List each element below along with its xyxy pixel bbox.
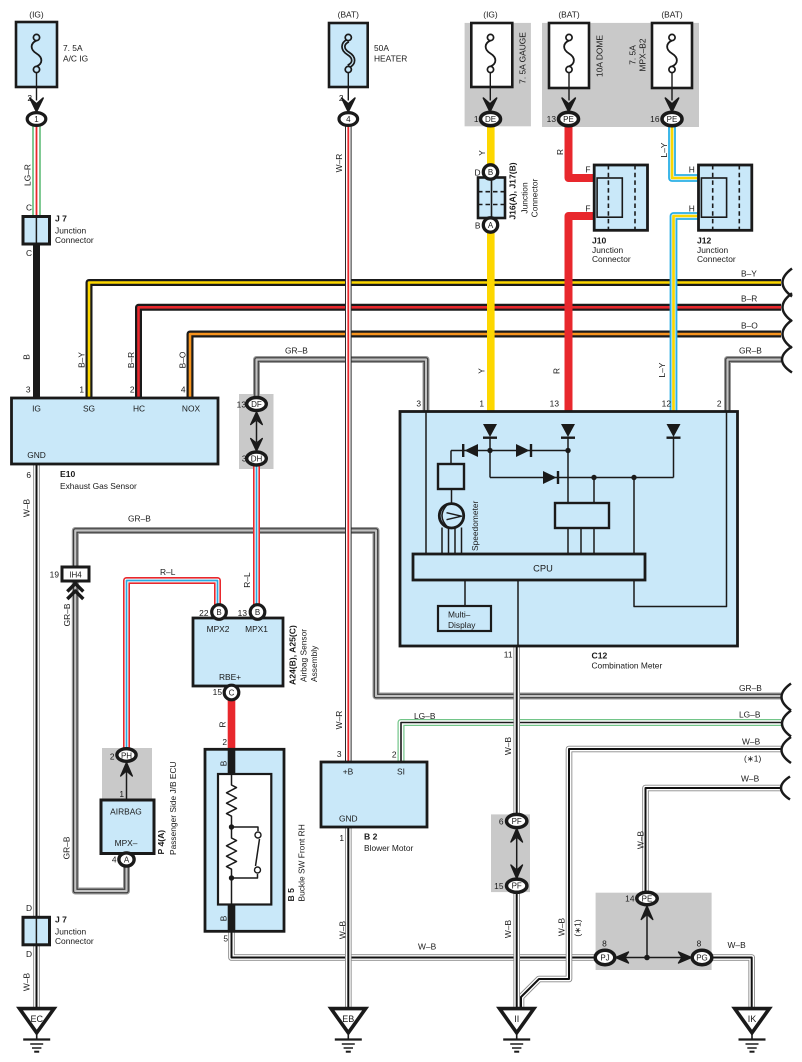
svg-text:A24(B), A25(C): A24(B), A25(C) [288,625,298,685]
svg-text:B–O: B–O [178,351,188,368]
svg-text:3: 3 [337,749,342,759]
gray background: 10A DOME / 7.5A MPX-B2 fuse block [542,23,699,127]
svg-text:4: 4 [346,115,351,124]
svg-text:Assembly: Assembly [309,645,319,682]
svg-text:W–B: W–B [503,920,513,939]
svg-text:Connector: Connector [55,235,94,245]
B5 inner switch box [218,774,271,905]
svg-text:7. 5A: 7. 5A [628,45,638,65]
wire W-B from C12 pin 11 to PF [516,646,518,815]
svg-text:PH: PH [121,752,132,761]
svg-text:LG–B: LG–B [414,711,436,721]
svg-text:B–R: B–R [741,294,757,304]
junction connector J16(A), J17(B) [478,178,505,219]
svg-text:PE: PE [563,115,574,124]
wire L-Y from PE 16 to J12 pin H [672,126,699,179]
labels: P4(A) [110,752,178,865]
svg-text:SG: SG [83,404,95,414]
svg-text:6: 6 [499,817,504,827]
connector circle B pin 13 [250,605,265,620]
ground IK [735,1009,770,1052]
svg-text:RBE+: RBE+ [219,672,241,682]
labels: J7 bottom [22,903,94,991]
svg-text:D: D [26,903,32,913]
svg-text:B: B [219,760,229,766]
svg-text:EB: EB [342,1014,354,1024]
labels: A24 box [199,608,319,747]
page-break curve W-B PE [781,777,790,800]
fuse 7.5A A/C IG [16,22,57,112]
labels: grounds [30,1014,756,1024]
svg-text:2: 2 [130,385,135,395]
wire LG-R from fuse 1 to J7 [36,126,38,219]
labels: J10 [585,165,630,265]
Multi-Display block [438,606,491,631]
svg-text:IG: IG [32,404,41,414]
svg-text:W–B: W–B [503,737,513,756]
svg-text:A: A [488,221,494,230]
svg-text:B–O: B–O [741,321,758,331]
junction connector J10 [594,165,647,230]
connector circle A (J16 bottom) [483,218,497,232]
svg-text:GR–B: GR–B [62,836,72,859]
diode inside C12 below pin 13 [561,424,575,439]
junction connector J12 [699,165,752,230]
IH4 connector [62,567,89,599]
svg-text:J 7: J 7 [55,915,67,925]
module block inside C12 [555,503,609,528]
B2 Blower Motor box [321,762,427,827]
svg-text:Connector: Connector [592,254,631,264]
svg-text:22: 22 [199,608,209,618]
svg-text:GR–B: GR–B [62,603,72,626]
svg-text:J16(A), J17(B): J16(A), J17(B) [508,162,518,219]
svg-text:P 4(A): P 4(A) [156,830,166,855]
junction connector J7 (top) [23,217,50,245]
wire W-B from E10 GND to ground EC [36,464,38,1008]
svg-text:R–L: R–L [242,572,252,588]
connector oval PE 13 [559,112,579,125]
svg-text:6: 6 [26,470,31,480]
svg-text:(BAT): (BAT) [558,10,579,20]
gray background: PF/PF connector [491,814,530,892]
wire Y (yellow) from DE fuse to C12 pin 1 [487,126,495,412]
connector circle B (J16 top) [483,165,497,179]
svg-text:B: B [488,168,493,177]
CPU block [413,554,645,580]
node dots inside C12 [487,448,492,453]
svg-text:Exhaust Gas Sensor: Exhaust Gas Sensor [60,481,137,491]
svg-text:DF: DF [251,400,262,409]
svg-text:Connector: Connector [697,254,736,264]
svg-text:W–R: W–R [334,154,344,173]
small square block inside C12 [438,464,464,489]
B5 node dots [229,824,234,829]
svg-text:A/C IG: A/C IG [63,54,88,64]
PJ to PG link with arrows and node [615,952,693,963]
svg-text:3: 3 [26,385,31,395]
labels: GR-B / IH4 net [50,514,152,860]
connector oval PE 16 [662,112,682,125]
page-break curve W-B (*1) [782,737,792,763]
svg-text:B–R: B–R [126,352,136,368]
svg-text:7. 5A: 7. 5A [63,43,83,53]
page-break curve LG-B [782,711,791,737]
svg-text:B: B [475,221,481,231]
svg-text:(IG): (IG) [483,10,498,20]
C12 Combination Meter box [400,412,738,647]
labels: right edge wire names top [739,269,762,356]
B5 Buckle SW Front RH box [205,749,284,931]
svg-text:8: 8 [602,939,607,949]
svg-text:R: R [552,368,562,374]
svg-text:Blower Motor: Blower Motor [364,843,414,853]
svg-text:Combination Meter: Combination Meter [592,661,663,671]
labels: DF/DH connector [237,346,309,464]
P4(A) Passenger Side J/B ECU box [101,771,154,854]
diode inside C12 below pin 12 [667,424,681,439]
svg-text:3: 3 [242,454,247,464]
svg-text:(IG): (IG) [29,10,44,20]
svg-text:HEATER: HEATER [374,54,407,64]
svg-text:12: 12 [662,399,672,409]
ground EC [20,1009,55,1052]
svg-text:(∗1): (∗1) [573,919,583,936]
svg-text:GR–B: GR–B [739,683,762,693]
ground II [500,1009,534,1052]
labels: fuse 10A DOME [547,10,605,156]
connector oval 4 (heater fuse output) [339,113,358,126]
svg-text:MPX–B2: MPX–B2 [638,38,648,71]
svg-text:7. 5A GAUGE: 7. 5A GAUGE [518,32,528,84]
svg-text:Y: Y [477,368,487,374]
wire W-B from PG to ground IK [712,958,752,1008]
diode pointing right on lower bus [543,471,559,484]
svg-text:W–R: W–R [334,711,344,730]
svg-text:W–B: W–B [557,918,567,937]
svg-text:PE: PE [667,115,678,124]
svg-text:EC: EC [30,1014,43,1024]
wire L-Y from J12 pin H to C12 pin 12 [674,216,700,412]
svg-text:Y: Y [477,150,487,156]
svg-text:SI: SI [397,767,405,777]
diode pointing right on upper bus [516,444,532,457]
page-break curve B-Y [783,269,793,297]
svg-text:+B: +B [343,767,354,777]
svg-text:IK: IK [748,1014,757,1024]
svg-text:NOX: NOX [182,404,201,414]
svg-text:50A: 50A [374,43,389,53]
svg-text:4: 4 [112,855,117,865]
svg-text:C12: C12 [592,651,608,661]
svg-text:GR–B: GR–B [739,346,762,356]
svg-text:W–B: W–B [742,737,761,747]
B5 terminal B (bottom) [228,904,236,932]
svg-text:B: B [255,608,260,617]
svg-text:GR–B: GR–B [285,346,308,356]
wire W-B from right edge to PE 14 [646,788,782,893]
C12 internal wiring [426,412,727,647]
wire B-O from E10 NOX to right edge [190,334,781,398]
svg-text:C: C [26,248,32,258]
connector oval A pin 4 [119,853,134,866]
svg-text:R: R [218,721,228,727]
svg-text:L–Y: L–Y [659,142,669,157]
svg-text:8: 8 [697,939,702,949]
svg-text:19: 19 [50,570,60,580]
svg-text:2: 2 [222,737,227,747]
svg-text:14: 14 [625,894,635,904]
wire B (black) J7 to E10 IG [33,243,40,398]
svg-text:Junction: Junction [55,226,87,236]
B5 resistor 2 [227,827,237,904]
svg-text:(∗1): (∗1) [744,754,761,764]
gray background: PE/PJ/PG connector block [596,893,712,970]
connector circle B pin 22 [212,605,227,620]
gray background: 7.5A GAUGE fuse block [465,23,531,126]
wire GR-B from right edge to C12 pin 2 [728,360,782,412]
svg-text:B–Y: B–Y [741,269,757,279]
connector oval PH with arrow [117,749,136,776]
svg-text:CPU: CPU [533,564,553,574]
svg-text:D: D [26,949,32,959]
svg-text:PE: PE [642,895,653,904]
svg-text:GND: GND [27,450,46,460]
svg-text:W–B: W–B [636,831,646,850]
svg-text:PF: PF [512,882,522,891]
svg-text:1: 1 [79,385,84,395]
svg-text:LG–R: LG–R [23,164,33,186]
svg-text:B–Y: B–Y [77,352,87,368]
labels: E10 wires [77,351,188,394]
svg-text:PJ: PJ [600,954,609,963]
wire R (red) from J10 pin F to C12 pin 13 [569,216,596,412]
svg-text:W–B: W–B [728,940,747,950]
svg-text:15: 15 [213,687,223,697]
svg-text:GR–B: GR–B [128,514,151,524]
ground EB [331,1009,366,1052]
connector circle C pin 15 [224,685,239,700]
svg-text:W–B: W–B [418,942,437,952]
svg-text:A: A [124,856,130,865]
svg-text:R–L: R–L [160,567,176,577]
svg-text:E10: E10 [60,469,76,479]
wire GR-B from DF to C12 pin 3 [257,360,427,412]
svg-text:C: C [26,203,32,213]
svg-text:13: 13 [550,399,560,409]
wire W-R from heater fuse to B2 +B [347,126,349,763]
svg-text:2: 2 [339,93,344,103]
svg-text:B: B [219,915,229,921]
svg-text:1: 1 [34,115,39,124]
diode pointing left on upper bus [462,444,478,457]
svg-text:MPX2: MPX2 [207,624,230,634]
svg-text:13: 13 [238,608,248,618]
fuse 50A HEATER [329,23,368,112]
svg-text:W–B: W–B [741,774,760,784]
labels: fuse 7.5A MPX-B2 [628,10,683,158]
page-break curve GR-B lower [782,684,792,711]
labels: B2 [334,711,436,939]
labels: E10 box [22,404,201,518]
B5 terminal B (top) [228,749,236,775]
svg-text:16: 16 [650,114,660,124]
fuse 7.5A MPX-B2 [652,23,692,112]
page-break curve B-O [783,320,793,348]
svg-text:4: 4 [181,385,186,395]
svg-text:W–B: W–B [338,921,348,940]
svg-text:Buckle SW Front RH: Buckle SW Front RH [297,824,307,901]
svg-text:2: 2 [392,750,397,760]
wire W-B (*1) from right edge to ground II [521,749,781,1007]
wire W-B from B5 pin 5 to PJ [232,931,596,958]
labels: W-B grounds area [494,737,746,963]
svg-text:15: 15 [494,881,504,891]
svg-text:B 5: B 5 [286,888,296,902]
svg-text:GND: GND [339,814,358,824]
svg-text:Connector: Connector [530,178,540,217]
svg-text:(BAT): (BAT) [661,10,682,20]
svg-text:1: 1 [479,399,484,409]
labels: B5 [219,760,437,951]
svg-text:HC: HC [133,404,145,414]
svg-text:II: II [514,1014,519,1024]
svg-text:Junction: Junction [520,182,530,214]
svg-text:(BAT): (BAT) [338,10,359,20]
wire GR-B from P4 pin A through IH4 to right edge [75,531,781,892]
svg-text:13: 13 [547,114,557,124]
svg-text:1: 1 [339,833,344,843]
svg-text:LG–B: LG–B [739,710,761,720]
svg-text:W–B: W–B [22,499,32,518]
svg-text:Passenger Side J/B ECU: Passenger Side J/B ECU [168,761,178,855]
labels: C12 pins [416,362,722,408]
wire R (red) from PE 13 to J10 pin F [569,126,596,179]
svg-text:H: H [689,165,695,175]
wire B-R from E10 HC to right edge [139,307,782,398]
connector oval PE 14 with arrow [637,892,657,957]
labels: right edge wire names bottom [739,683,762,784]
svg-text:Speedometer: Speedometer [470,501,480,551]
gray background: PH connector (Passenger Side J/B ECU) [102,748,152,802]
svg-text:B: B [216,608,221,617]
labels: fuse 7.5A GAUGE / DE [474,10,528,156]
fuse 7.5A GAUGE [471,23,512,112]
svg-text:3: 3 [416,399,421,409]
svg-text:Junction: Junction [55,927,87,937]
svg-text:5: 5 [223,934,228,944]
svg-text:C: C [229,689,235,698]
svg-text:1: 1 [474,114,479,124]
wire W-B from PF to ground II [516,892,518,1009]
svg-text:H: H [689,204,695,214]
page-break curve GR-B pin2 [782,347,792,373]
labels: R-L wires [160,567,252,588]
svg-text:B: B [22,354,32,360]
svg-text:DE: DE [485,115,496,124]
wire W-B from B2 GND to ground EB [347,827,349,1008]
svg-text:J12: J12 [697,236,712,246]
diode inside C12 below pin 1 [483,424,497,439]
svg-text:1: 1 [119,789,124,799]
svg-text:L–Y: L–Y [657,362,667,377]
connector oval PJ 8 [595,950,615,964]
svg-text:D: D [474,168,480,178]
svg-text:W–B: W–B [22,973,32,992]
svg-text:MPX1: MPX1 [245,624,268,634]
svg-text:F: F [585,204,590,214]
fuse 10A DOME [549,23,589,112]
A24(B), A25(C) Airbag Sensor Assembly box [193,618,283,686]
svg-text:F: F [585,165,590,175]
svg-text:AIRBAG: AIRBAG [110,807,142,817]
speedometer icon [439,504,463,528]
wire R-L from PH to A24 MPX2 pin B [127,581,218,751]
connector oval DE [481,112,501,125]
connector oval PG 8 [692,950,712,964]
svg-text:2: 2 [717,399,722,409]
labels: J12 [689,165,736,265]
wire LG-B from B2 SI to right edge [401,723,781,763]
wire R (red) from A24 RBE+ pin C to B5 [228,700,236,750]
labels: fuse 50A HEATER [334,10,407,173]
svg-text:Multi–: Multi– [448,610,471,620]
connector oval 1 (A/C IG fuse output) [27,113,46,126]
connector oval DF with arrows [247,398,267,466]
labels: J16/J17 junction connector [474,162,539,230]
svg-text:J 7: J 7 [55,214,67,224]
svg-text:PF: PF [512,817,522,826]
connector oval PF 6 with arrows [507,814,527,892]
svg-text:PG: PG [696,954,708,963]
labels: fuse A/C IG [22,10,94,395]
gray background: DF/DH connector [239,394,274,469]
wire R-L from DH to A24 MPX1 pin B [256,465,258,606]
E10 Exhaust Gas Sensor box [12,398,219,464]
junction connector J7 (bottom) [23,917,50,945]
svg-text:11: 11 [504,650,513,660]
svg-text:Display: Display [448,620,476,630]
labels: C12 internals [448,501,662,671]
svg-text:Connector: Connector [55,936,94,946]
svg-text:Airbag Sensor: Airbag Sensor [299,629,309,682]
svg-text:J10: J10 [592,236,607,246]
page-break curve B-R [783,293,793,321]
svg-text:13: 13 [237,400,247,410]
wire B-Y from E10 SG to right edge [89,283,781,399]
svg-text:DH: DH [251,455,263,464]
svg-text:R: R [555,149,565,155]
svg-text:B 2: B 2 [364,832,378,842]
svg-text:10A DOME: 10A DOME [595,35,605,77]
B5 switch contacts [232,827,260,878]
B5 resistor 1 [227,774,237,827]
svg-text:MPX–: MPX– [115,838,138,848]
svg-text:2: 2 [27,93,32,103]
svg-text:IH4: IH4 [69,571,82,580]
svg-text:2: 2 [110,752,115,762]
